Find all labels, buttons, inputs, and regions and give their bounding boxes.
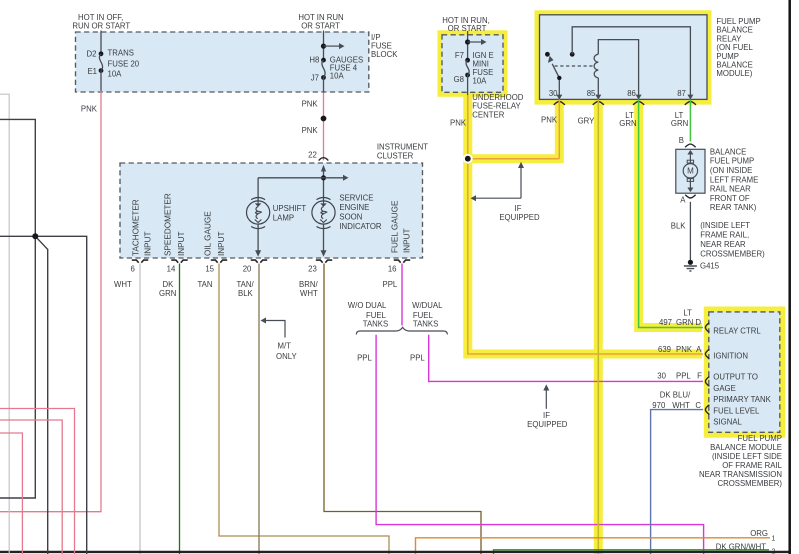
svg-text:PPL: PPL	[676, 371, 691, 380]
svg-text:TACHOMETER: TACHOMETER	[132, 199, 141, 256]
svg-text:WHT: WHT	[672, 401, 690, 410]
svg-text:FUEL LEVEL: FUEL LEVEL	[713, 406, 760, 415]
svg-text:A: A	[696, 345, 702, 354]
svg-text:W/O DUAL: W/O DUAL	[348, 301, 387, 310]
svg-text:14: 14	[167, 264, 176, 273]
svg-text:85: 85	[587, 89, 596, 98]
wire DK BLU/WHT to module pin C	[651, 391, 703, 554]
svg-text:FRONT OF: FRONT OF	[710, 194, 750, 203]
svg-text:1: 1	[772, 536, 776, 543]
svg-text:INPUT: INPUT	[177, 231, 186, 256]
wire branch to upshift lamp and right arrow	[258, 175, 348, 201]
svg-text:639: 639	[658, 345, 671, 354]
svg-text:TAN: TAN	[198, 280, 213, 289]
svg-text:INSTRUMENT: INSTRUMENT	[377, 143, 428, 152]
svg-text:PPL: PPL	[357, 353, 372, 362]
svg-text:TRANS: TRANS	[108, 49, 134, 58]
wire labels 497 LT GRN D	[659, 308, 701, 327]
svg-text:16: 16	[388, 264, 397, 273]
svg-text:GRN: GRN	[671, 119, 688, 128]
connector A at pump	[680, 195, 695, 205]
connector B at pump	[685, 144, 695, 147]
svg-text:BALANCE: BALANCE	[716, 61, 752, 70]
svg-text:SIGNAL: SIGNAL	[713, 418, 742, 427]
svg-text:WHT: WHT	[114, 280, 132, 289]
svg-text:FUEL PUMP: FUEL PUMP	[716, 17, 760, 26]
wire gauges fuse to box bottom	[323, 78, 325, 93]
svg-text:FUEL GAUGE: FUEL GAUGE	[391, 200, 400, 253]
svg-text:FUSE 20: FUSE 20	[108, 59, 140, 68]
wire BRN/WHT pin 23	[299, 264, 481, 554]
svg-text:G8: G8	[454, 75, 464, 84]
fuse TRANS FUSE 20 10A	[87, 49, 140, 79]
wire labels 30 PPL F	[657, 371, 702, 380]
note IF EQUIPPED upper arrow	[471, 162, 541, 222]
wire PPL w/o dual tanks branch	[357, 335, 703, 554]
wire BLK pump to ground	[671, 202, 765, 260]
svg-text:FUEL PUMP: FUEL PUMP	[738, 434, 782, 443]
svg-text:IGNITION: IGNITION	[713, 351, 748, 360]
svg-text:(ON INSIDE: (ON INSIDE	[710, 166, 752, 175]
svg-text:F: F	[697, 371, 702, 380]
svg-text:W/DUAL: W/DUAL	[412, 301, 443, 310]
svg-text:RUN OR START: RUN OR START	[72, 22, 130, 31]
node HOT IN OFF RUN OR START	[72, 13, 130, 31]
svg-text:UPSHIFT: UPSHIFT	[273, 204, 307, 213]
instrument cluster box	[120, 143, 428, 259]
svg-text:ORG: ORG	[750, 529, 768, 538]
svg-text:RAIL NEAR: RAIL NEAR	[710, 185, 751, 194]
wire feed to mini fuse	[467, 31, 469, 60]
svg-text:C: C	[695, 401, 701, 410]
module box FUEL PUMP BALANCE MODULE	[704, 307, 786, 438]
wire inside cluster from pin22 with up arrow	[321, 165, 326, 201]
wire dark left B	[0, 236, 87, 554]
svg-text:CENTER: CENTER	[472, 110, 504, 119]
svg-text:970: 970	[652, 401, 666, 410]
svg-text:BLK: BLK	[671, 221, 687, 230]
module pin bumps D A F C	[705, 323, 709, 415]
svg-text:22: 22	[308, 151, 317, 160]
svg-text:IF: IF	[515, 204, 522, 213]
wire WHT left bundle	[0, 94, 9, 554]
svg-text:UNDERHOOD: UNDERHOOD	[472, 93, 523, 102]
svg-text:TANKS: TANKS	[413, 320, 438, 329]
svg-text:WHT: WHT	[300, 289, 318, 298]
svg-text:PNK: PNK	[302, 100, 319, 109]
svg-text:PNK: PNK	[541, 115, 558, 124]
svg-text:INPUT: INPUT	[403, 228, 412, 253]
wire upshift lamp to pin 20	[255, 224, 261, 256]
relay terminal numbers	[549, 89, 686, 98]
svg-text:FUEL PUMP: FUEL PUMP	[710, 157, 754, 166]
svg-text:H8: H8	[309, 56, 319, 65]
svg-text:INPUT: INPUT	[144, 231, 153, 256]
relay switch armature and contacts	[545, 52, 593, 100]
lamp SERVICE ENGINE SOON INDICATOR	[312, 193, 382, 231]
svg-text:SOON: SOON	[339, 213, 362, 222]
svg-text:GRN: GRN	[159, 289, 176, 298]
underhood fuse-relay center box	[438, 16, 524, 127]
svg-text:20: 20	[243, 264, 252, 273]
svg-text:GRN: GRN	[676, 318, 693, 327]
wire PNK left 2	[0, 420, 62, 554]
svg-text:INDICATOR: INDICATOR	[339, 222, 382, 231]
svg-text:CLUSTER: CLUSTER	[377, 152, 414, 161]
highlight PNK wire fuse-to-relay-to-module	[468, 95, 702, 354]
highlight LT GRN wire to module	[639, 100, 702, 328]
svg-text:BALANCE MODULE: BALANCE MODULE	[710, 443, 782, 452]
svg-text:FUSE-RELAY: FUSE-RELAY	[472, 102, 521, 111]
svg-text:LEFT FRAME: LEFT FRAME	[710, 175, 758, 184]
highlight GRY wire	[594, 100, 603, 554]
svg-text:DK GRN/WHT: DK GRN/WHT	[716, 543, 766, 552]
svg-text:CROSSMEMBER): CROSSMEMBER)	[717, 479, 782, 488]
svg-text:M/T: M/T	[278, 342, 292, 351]
relay wire common to terminal 87	[572, 27, 693, 100]
svg-text:FRAME RAIL,: FRAME RAIL,	[700, 231, 749, 240]
wire PNK underhood fuse to relay 30 and module pin A	[463, 95, 703, 354]
svg-text:EQUIPPED: EQUIPPED	[499, 213, 540, 222]
svg-text:(INSIDE LEFT: (INSIDE LEFT	[700, 221, 750, 230]
svg-text:PNK: PNK	[676, 345, 693, 354]
wire PPL w/dual tanks branch	[410, 335, 703, 382]
I/P fuse block box	[76, 32, 399, 92]
svg-text:23: 23	[308, 264, 317, 273]
note IF EQUIPPED lower arrow	[527, 384, 568, 429]
svg-text:87: 87	[677, 89, 686, 98]
page border right	[788, 0, 791, 554]
svg-text:TAN/: TAN/	[237, 280, 255, 289]
connector at relay terminals	[554, 101, 696, 105]
svg-text:ENGINE: ENGINE	[339, 203, 369, 212]
svg-text:DK: DK	[163, 280, 175, 289]
note W/DUAL FUEL TANKS	[412, 301, 443, 329]
node HOT IN RUN OR START (IP)	[298, 13, 343, 31]
wire BLK bottom run	[0, 551, 791, 553]
wire PNK from trans fuse down and exits left	[0, 91, 101, 512]
motor BALANCE FUEL PUMP	[676, 147, 758, 212]
wire trans fuse to box bottom	[100, 71, 102, 91]
svg-text:(ON FUEL: (ON FUEL	[716, 43, 753, 52]
svg-text:SPEEDOMETER: SPEEDOMETER	[164, 193, 173, 256]
wire ORG	[416, 529, 776, 554]
wire TAN pin 15	[198, 264, 390, 554]
fuse GAUGES FUSE 4 10A	[309, 55, 363, 82]
svg-text:GRN: GRN	[619, 119, 636, 128]
svg-text:B: B	[679, 136, 684, 145]
svg-text:DK BLU/: DK BLU/	[660, 391, 691, 400]
wire mini fuse to box bottom	[467, 75, 469, 95]
svg-text:10A: 10A	[108, 69, 123, 78]
wire WHT pin 6	[114, 264, 140, 554]
svg-text:ONLY: ONLY	[276, 352, 297, 361]
svg-text:CROSSMEMBER): CROSSMEMBER)	[700, 250, 765, 259]
ground G415	[684, 260, 720, 271]
svg-text:PPL: PPL	[410, 353, 425, 362]
wire LT GRN relay 87 to pump	[671, 99, 691, 145]
svg-text:PNK: PNK	[81, 105, 98, 114]
relay coil between 85 and 86	[594, 40, 641, 100]
wire feed to trans fuse	[100, 31, 102, 54]
svg-text:PPL: PPL	[383, 280, 398, 289]
wire LT GRN relay 86 to module pin D	[619, 99, 703, 327]
svg-text:NEAR REAR: NEAR REAR	[700, 240, 746, 249]
svg-text:OF FRAME RAIL: OF FRAME RAIL	[722, 461, 782, 470]
svg-text:GRY: GRY	[578, 117, 596, 126]
svg-text:BALANCE: BALANCE	[716, 26, 752, 35]
svg-text:BRN/: BRN/	[299, 280, 318, 289]
svg-text:REAR TANK): REAR TANK)	[710, 203, 757, 212]
note W/O DUAL FUEL TANKS	[348, 301, 388, 329]
node junction with arrow in underhood box	[465, 39, 487, 45]
svg-text:EQUIPPED: EQUIPPED	[527, 420, 568, 429]
brace split of PPL wire	[356, 327, 447, 334]
svg-text:D: D	[695, 318, 701, 327]
svg-text:PNK: PNK	[450, 119, 467, 128]
note FUEL PUMP BALANCE MODULE location	[699, 434, 783, 488]
svg-text:30: 30	[657, 371, 666, 380]
svg-text:G415: G415	[700, 262, 720, 271]
svg-text:BLOCK: BLOCK	[371, 50, 398, 59]
svg-text:30: 30	[549, 89, 558, 98]
svg-text:M: M	[687, 167, 694, 176]
svg-text:(INSIDE LEFT SIDE: (INSIDE LEFT SIDE	[712, 452, 782, 461]
note M/T ONLY arrow	[261, 318, 298, 362]
cluster bottom pin bumps and numbers	[130, 260, 410, 273]
wire PNK left 1	[0, 409, 75, 554]
svg-text:MODULE): MODULE)	[716, 69, 752, 78]
svg-text:E1: E1	[87, 67, 97, 76]
svg-text:RELAY CTRL: RELAY CTRL	[713, 326, 761, 335]
svg-text:PUMP: PUMP	[716, 52, 739, 61]
pin 22 bump	[319, 158, 329, 161]
svg-text:IF: IF	[543, 411, 550, 420]
svg-text:15: 15	[205, 264, 214, 273]
wire PNK relay 30	[541, 99, 559, 158]
wire TAN/BLK pin 20	[237, 264, 260, 554]
wire labels 639 PNK A	[658, 345, 702, 354]
svg-text:RELAY: RELAY	[716, 34, 742, 43]
wire PNK gauges fuse to cluster pin 22	[302, 93, 327, 161]
node junction with arrow in IP box	[321, 43, 345, 49]
svg-text:6: 6	[130, 264, 134, 273]
wire dark left C diagonal	[32, 233, 47, 554]
wire dark left A	[0, 119, 35, 498]
wire PNK left 3	[0, 433, 22, 554]
svg-text:86: 86	[627, 89, 636, 98]
svg-text:PNK: PNK	[302, 126, 319, 135]
wire DK GRN pin 14	[159, 264, 180, 554]
svg-text:10A: 10A	[330, 72, 345, 81]
cluster rotated labels	[132, 193, 412, 256]
svg-text:OUTPUT TO: OUTPUT TO	[713, 373, 758, 382]
wire DK GRN/WHT	[494, 543, 776, 554]
svg-text:PRIMARY TANK: PRIMARY TANK	[713, 395, 771, 404]
fuse IGN E MINI FUSE 10A	[454, 51, 494, 86]
svg-text:10A: 10A	[473, 77, 488, 86]
svg-text:SERVICE: SERVICE	[339, 193, 373, 202]
svg-text:GAGE: GAGE	[713, 384, 736, 393]
svg-text:LAMP: LAMP	[273, 214, 294, 223]
svg-text:INPUT: INPUT	[217, 231, 226, 256]
svg-text:A: A	[680, 196, 686, 205]
svg-text:NEAR TRANSMISSION: NEAR TRANSMISSION	[699, 470, 782, 479]
wire PPL pin 16	[383, 264, 403, 326]
wire GRY relay 85	[578, 99, 599, 554]
lamp UPSHIFT LAMP	[247, 198, 307, 229]
svg-text:TANKS: TANKS	[363, 320, 388, 329]
svg-text:497: 497	[659, 318, 672, 327]
wire feed to gauges fuse	[323, 31, 325, 61]
svg-text:BALANCE: BALANCE	[710, 147, 746, 156]
svg-text:J7: J7	[311, 74, 319, 83]
svg-text:F7: F7	[455, 51, 464, 60]
svg-text:D2: D2	[87, 50, 97, 59]
svg-text:OR START: OR START	[301, 22, 340, 31]
svg-text:BLK: BLK	[238, 289, 254, 298]
svg-text:OIL GAUGE: OIL GAUGE	[204, 211, 213, 256]
wire SES lamp to pin 23	[321, 224, 327, 256]
relay box FUEL PUMP BALANCE RELAY	[535, 10, 761, 104]
svg-text:LT: LT	[683, 308, 692, 317]
